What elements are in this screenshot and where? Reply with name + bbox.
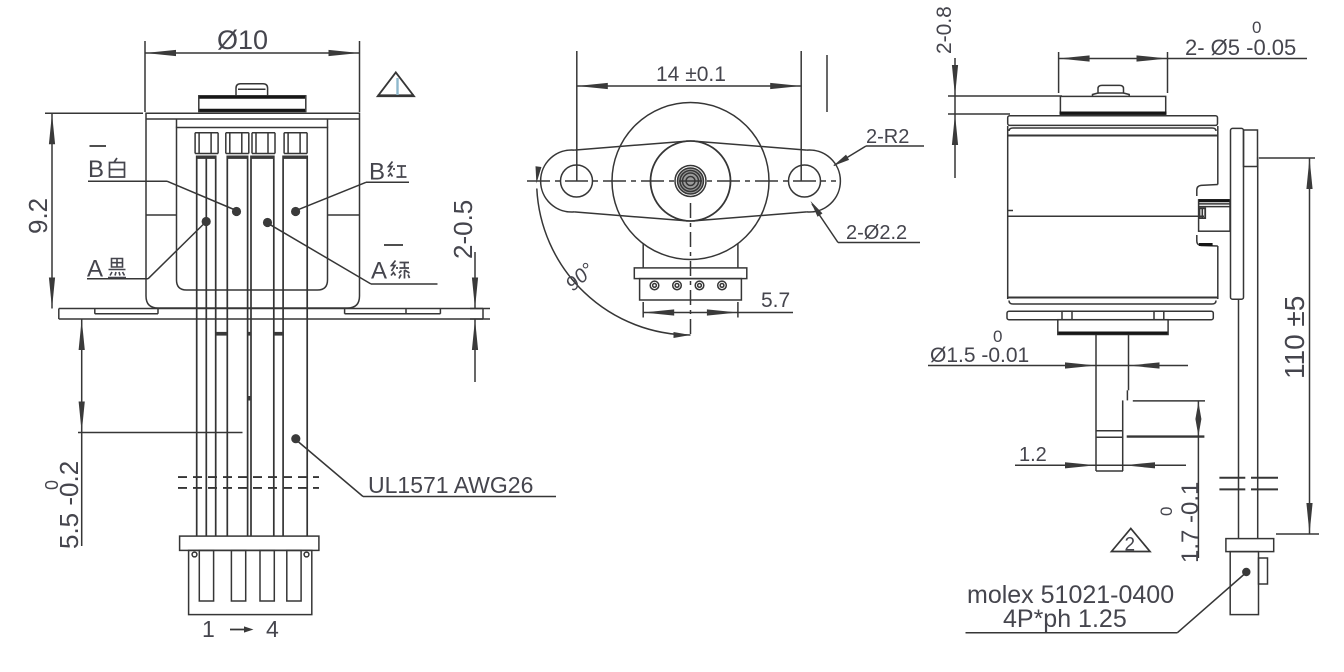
can left notch ticks <box>1008 210 1013 212</box>
right ear hole <box>789 165 821 197</box>
connector neck (top view) <box>642 244 644 268</box>
wire W1 (A black) <box>196 156 198 537</box>
svg-text:5.7: 5.7 <box>761 289 790 312</box>
vertical centerline <box>690 203 692 336</box>
dimension 110 ±5 extension lines <box>1259 157 1315 159</box>
svg-text:0: 0 <box>993 327 1002 346</box>
crimp tabs <box>1062 311 1072 320</box>
left ear hole <box>561 165 593 197</box>
shaft end <box>1096 470 1123 472</box>
svg-text:2: 2 <box>1125 535 1136 556</box>
dimension 2-0.5 extension lines <box>470 308 490 310</box>
90 degree angular dimension arc <box>537 189 691 336</box>
flange ear edge lines <box>95 313 158 315</box>
housing step lines <box>146 214 177 216</box>
svg-text:5.5 -0.2: 5.5 -0.2 <box>54 461 84 549</box>
svg-text:90°: 90° <box>562 259 599 296</box>
terminal slot group 3 <box>252 133 275 154</box>
body top seam lines <box>146 118 360 120</box>
svg-text:2-Ø2.2: 2-Ø2.2 <box>846 222 907 244</box>
dimension 2-0.8 extension lines <box>948 95 1062 97</box>
svg-text:B: B <box>369 159 385 186</box>
label A-bar green <box>384 244 403 246</box>
wire break marks <box>1219 477 1245 479</box>
connector body (front view) <box>189 550 312 614</box>
bottom end bell plate <box>1007 311 1213 320</box>
can bottom shoulder <box>1008 297 1218 299</box>
note triangle 2 <box>1112 529 1151 552</box>
svg-text:A: A <box>371 258 387 285</box>
lead wires (side view) <box>1238 299 1240 539</box>
molex leader dot <box>1242 568 1250 576</box>
left mounting ear <box>541 150 574 212</box>
svg-text:0: 0 <box>1252 18 1261 37</box>
wire top dark bands <box>197 156 216 159</box>
dimension Ø1.5 -0.01 line <box>928 365 1188 367</box>
terminal slot group 1 <box>195 133 218 154</box>
bearing plate (front view) <box>199 96 306 112</box>
wire crimp dark bands below flange <box>216 332 228 336</box>
dimension Ø10 extension lines <box>144 41 146 112</box>
molex connector latch <box>1259 558 1268 584</box>
inner housing panel <box>177 128 328 291</box>
terminal slot group 4 <box>284 133 307 154</box>
dimension 2-0.5 line <box>474 252 476 309</box>
molex connector top plate (side view) <box>1226 539 1274 552</box>
svg-text:UL1571 AWG26: UL1571 AWG26 <box>368 472 533 498</box>
connector block <box>640 279 742 300</box>
connector pins <box>199 550 213 601</box>
dimension 2-Ø5 line <box>1059 58 1307 60</box>
wire W3 (A green) <box>250 156 252 537</box>
bearing plate top (side view) <box>1060 96 1165 114</box>
svg-text:0: 0 <box>42 480 62 490</box>
can body sides <box>1007 126 1009 299</box>
svg-text:14 ±0.1: 14 ±0.1 <box>656 63 726 86</box>
dimension 5.7 line <box>643 312 793 314</box>
right mounting ear <box>807 150 840 212</box>
motor body circle (top view) <box>612 103 769 260</box>
bearing housing bottom (side view) <box>1058 320 1168 335</box>
shaft end bump (front view) <box>236 84 268 97</box>
connector pin holes <box>650 281 726 290</box>
dimension Ø10 line <box>145 52 360 54</box>
svg-text:B: B <box>88 156 104 183</box>
can shoulder <box>1009 128 1216 131</box>
motor body outline (front view) <box>146 113 360 308</box>
shaft step lines <box>1096 430 1123 432</box>
wire W4 (B red) <box>282 156 284 537</box>
molex connector body (side view) <box>1230 552 1258 615</box>
can mid seam <box>1008 215 1204 217</box>
horizontal centerline <box>527 180 836 182</box>
dimension 1.7 -0.1 line <box>1197 401 1199 558</box>
terminal slot group 2 <box>226 133 249 154</box>
wire W2 (B white) <box>226 156 228 537</box>
output shaft (side view) <box>1095 335 1097 472</box>
svg-text:2-R2: 2-R2 <box>866 126 909 148</box>
connector band <box>634 268 747 279</box>
connector latch holes <box>192 552 197 557</box>
panel corner ticks <box>176 119 178 128</box>
svg-text:0: 0 <box>1157 507 1176 516</box>
terminal block (side view) <box>1199 200 1230 231</box>
dimension 5.7 extension lines <box>642 302 644 318</box>
svg-text:2-0.8: 2-0.8 <box>933 6 956 54</box>
dimension 14 ±0.1 line <box>577 85 801 87</box>
wire channel tab <box>1244 130 1258 167</box>
dimension 9.2 extension line <box>45 112 143 114</box>
shaft end bump (side view) <box>1093 85 1130 96</box>
svg-text:4: 4 <box>266 616 279 642</box>
mounting flange (front view, edge-on) <box>59 308 483 310</box>
flange plate (side view) <box>1231 128 1244 299</box>
connector housing top plate (front view) <box>180 536 319 550</box>
dimension 5.5 -0.2 line <box>81 319 83 546</box>
svg-text:1.7 -0.1: 1.7 -0.1 <box>1177 482 1204 563</box>
dimension 2-0.8 line <box>954 58 956 96</box>
dimension 2-Ø5 extension lines <box>1058 52 1060 93</box>
svg-text:Ø10: Ø10 <box>217 25 268 55</box>
svg-text:1.2: 1.2 <box>1019 444 1047 466</box>
note triangle 1 <box>378 72 414 96</box>
dimension 14 ±0.1 extension lines <box>576 51 578 181</box>
bearing boss circle <box>651 141 731 221</box>
svg-text:110 ±5: 110 ±5 <box>1279 296 1310 379</box>
svg-text:1: 1 <box>202 616 215 642</box>
svg-text:2-0.5: 2-0.5 <box>448 200 478 259</box>
dimension 9.2 line <box>51 113 53 308</box>
molex leader line <box>1177 574 1244 633</box>
svg-text:9.2: 9.2 <box>23 198 53 234</box>
svg-text:4P*ph 1.25: 4P*ph 1.25 <box>1003 605 1127 633</box>
top end bell plate <box>1008 116 1218 126</box>
wire break lines <box>178 476 319 478</box>
svg-text:2- Ø5 -0.05: 2- Ø5 -0.05 <box>1185 35 1296 60</box>
dimension 110 ±5 line <box>1309 158 1311 534</box>
shaft flat detail rectangle <box>1133 400 1205 402</box>
shaft rings <box>678 168 704 194</box>
dimension 1.2 line <box>1015 464 1186 466</box>
can right notch <box>1197 185 1218 197</box>
label B-bar white <box>90 145 107 147</box>
svg-text:Ø1.5 -0.01: Ø1.5 -0.01 <box>930 344 1029 367</box>
